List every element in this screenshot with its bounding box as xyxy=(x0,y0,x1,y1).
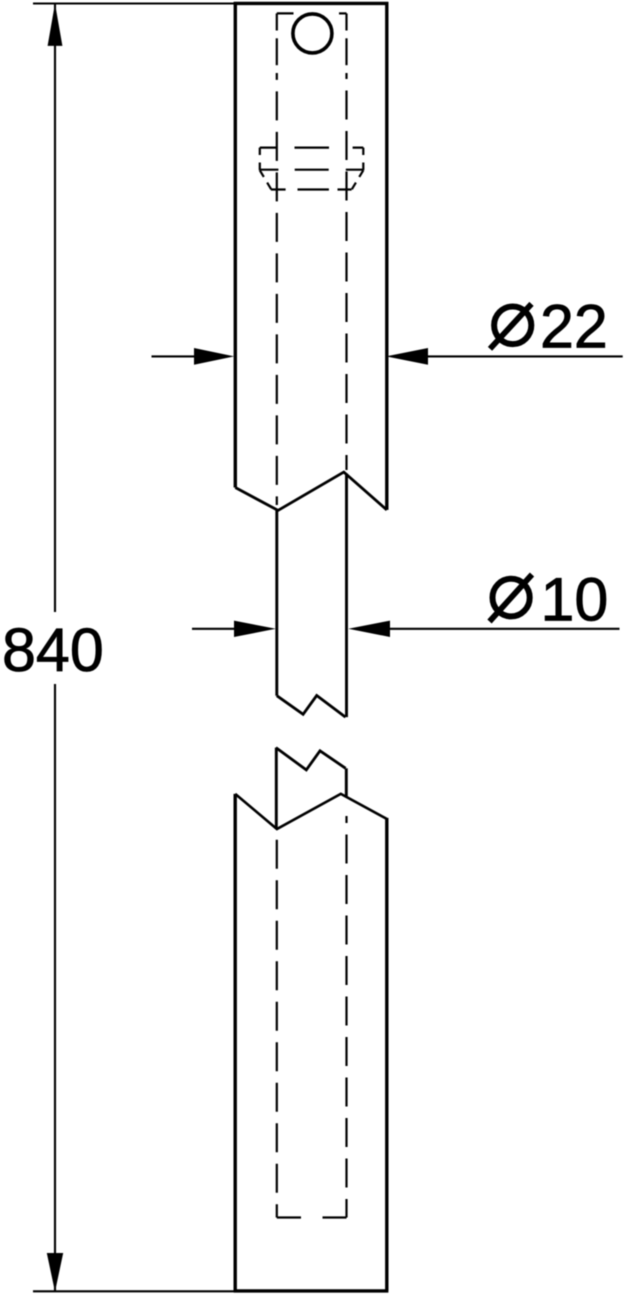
rod right wall (between breaks, upper piece) xyxy=(345,474,348,718)
dim line O22 right segment xyxy=(425,355,623,357)
diameter symbol O10 xyxy=(493,579,530,617)
hidden rod left line (dashed, lower) xyxy=(276,832,278,1218)
collar middle edge (dashed) xyxy=(260,169,364,171)
arrowhead O10 left xyxy=(234,621,276,637)
arrowhead up (840) xyxy=(48,4,63,46)
svg-text:22: 22 xyxy=(540,293,608,361)
extension line top xyxy=(33,2,236,4)
rod bottom break zigzag xyxy=(277,696,346,718)
dimension line 840 (vertical, upper segment) xyxy=(54,4,56,612)
collar right taper (dashed) xyxy=(352,170,364,189)
dim line O22 left segment xyxy=(152,355,201,357)
collar top edge (dashed) xyxy=(260,147,364,149)
svg-text:10: 10 xyxy=(541,566,609,634)
upper tube top edge xyxy=(234,2,389,5)
arrowhead O10 right xyxy=(348,621,390,637)
collar bottom edge (dashed) xyxy=(271,188,352,190)
diameter symbol O22 xyxy=(494,307,531,345)
lower tube bottom edge xyxy=(234,1289,389,1292)
hidden rod top edge left piece xyxy=(277,12,294,14)
hidden rod left line (dashed, upper) xyxy=(276,13,278,30)
lower tube right wall xyxy=(385,818,388,1291)
hidden rod bottom edge left piece xyxy=(277,1216,301,1218)
arrowhead O22 right xyxy=(386,348,428,365)
hidden rod right line (dashed, lower) xyxy=(345,816,347,1218)
hanger hole circle xyxy=(293,14,332,53)
lower rod right wall xyxy=(345,768,348,797)
dimension line 840 (vertical, lower segment) xyxy=(54,684,56,1291)
upper tube break zigzag xyxy=(235,472,386,510)
dim line O10 left segment xyxy=(192,628,238,630)
hidden rod right line (dashed, upper) xyxy=(345,13,347,30)
hidden rod top edge right piece xyxy=(339,12,347,14)
extension line bottom xyxy=(33,1290,236,1292)
upper tube right wall xyxy=(385,2,388,510)
arrowhead down (840) xyxy=(47,1253,63,1292)
lower tube top break zigzag xyxy=(235,794,386,829)
lower tube left wall xyxy=(233,794,236,1291)
collar left taper (dashed) xyxy=(260,170,271,189)
dim line O10 right segment xyxy=(387,628,620,630)
upper tube left wall xyxy=(234,2,237,488)
collar left side (dashed) xyxy=(259,148,261,171)
arrowhead O22 left xyxy=(194,348,234,365)
collar right side (dashed) xyxy=(362,148,364,171)
hidden rod bottom edge right piece xyxy=(323,1216,347,1218)
svg-text:840: 840 xyxy=(2,616,104,684)
rod left wall (between breaks, upper piece) xyxy=(275,510,278,695)
lower rod top break zigzag xyxy=(276,748,346,770)
lower rod left wall xyxy=(275,748,278,829)
